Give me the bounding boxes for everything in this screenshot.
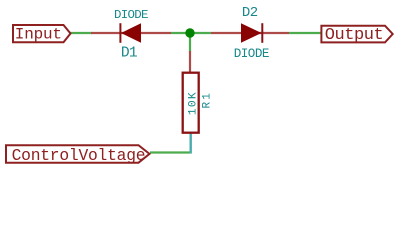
diode D2 body (points right): [241, 23, 262, 43]
svg-text:Input: Input: [15, 25, 62, 43]
junction node: [185, 28, 194, 37]
svg-text:DIODE: DIODE: [234, 47, 269, 61]
svg-text:ControlVoltage: ControlVoltage: [12, 146, 146, 165]
wire (teal): resistor bottom pin overlap segment: [189, 133, 191, 154]
svg-text:D1: D1: [121, 46, 138, 62]
global label ControlVoltage: flag outline: [6, 145, 150, 163]
wire: D2 right pin to Output flag: [289, 32, 321, 34]
wire: junction down to resistor top pin: [189, 33, 191, 52]
resistor R1 body: [183, 73, 199, 133]
global label Input: flag outline: [13, 25, 71, 42]
svg-text:R1: R1: [202, 91, 214, 109]
resistor R1 top pin: [189, 51, 191, 72]
diode D1 body (points left): [120, 23, 141, 43]
global label Output: flag outline: [321, 26, 392, 43]
diode D1 pins: [91, 32, 171, 34]
wire: D1 right pin to junction to D2 left pin: [171, 32, 211, 34]
svg-text:10K: 10K: [187, 91, 199, 115]
svg-text:DIODE: DIODE: [114, 8, 148, 22]
wire: Input flag to D1 left pin: [70, 32, 92, 34]
wire: ControlVoltage flag to below resistor: [150, 151, 192, 153]
diode D2 pins: [211, 32, 289, 34]
svg-text:D2: D2: [242, 5, 258, 21]
svg-text:Output: Output: [325, 26, 384, 45]
